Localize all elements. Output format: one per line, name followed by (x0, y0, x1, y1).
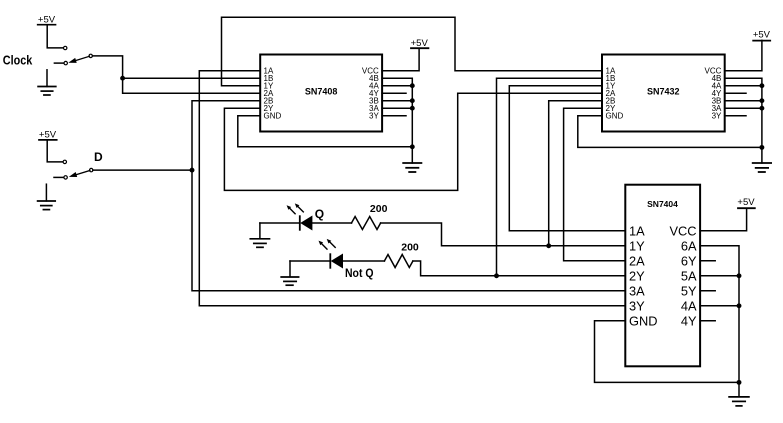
svg-text:1Y: 1Y (629, 238, 645, 253)
wire U2 4B tied to ground (725, 78, 762, 163)
svg-text:GND: GND (629, 313, 657, 328)
wire U2 4A (725, 85, 762, 87)
wire U2 1Y to U3 1A (509, 86, 625, 231)
wire Clock to U1 2A (92, 56, 260, 93)
svg-text:+5V: +5V (39, 130, 57, 141)
junction U1 GND rail (410, 144, 415, 149)
wire D to junction (93, 169, 192, 171)
wire U2 3Y stub (725, 115, 746, 117)
pin labels U1 right: VCC 4B 4A 4Y 3B 3A 3Y (362, 66, 380, 120)
junction D/2B (190, 168, 195, 173)
svg-text:Not Q: Not Q (345, 266, 374, 280)
svg-text:GND: GND (264, 111, 282, 120)
wire U3 5Y stub (700, 290, 715, 292)
wire U2 3A (725, 107, 762, 109)
ground (Clock switch) (38, 70, 56, 95)
wire U2 2Y to U3 2A (564, 108, 626, 261)
svg-text:200: 200 (401, 241, 419, 253)
op IC U2 SN7432 (602, 55, 725, 132)
ground (U1) (403, 163, 421, 172)
junction U3 4A (737, 303, 742, 308)
svg-text:4A: 4A (681, 298, 697, 313)
wire U1 2Y bottom loop to U2 2A (224, 93, 602, 190)
svg-text:5A: 5A (681, 268, 697, 283)
wire U1 3A (382, 107, 412, 109)
junction U3 5A (737, 273, 742, 278)
svg-text:3A: 3A (629, 283, 645, 298)
svg-text:Q: Q (315, 207, 324, 221)
svg-text:6A: 6A (681, 238, 697, 253)
wire U1 2B / D to U3 3A (192, 101, 625, 291)
power +5V (U1) (411, 38, 429, 49)
wire U3 5A (700, 275, 739, 277)
svg-text:D: D (94, 150, 103, 164)
svg-text:2Y: 2Y (629, 268, 645, 283)
resistor 200 (Not Q) (384, 255, 413, 268)
svg-text:5Y: 5Y (681, 283, 697, 298)
svg-text:+5V: +5V (753, 30, 771, 41)
wire LED Q to resistor (312, 222, 352, 224)
junction U1 3B (410, 98, 415, 103)
wire U1 GND rail (238, 116, 412, 147)
svg-text:SN7408: SN7408 (305, 87, 338, 97)
wire U2 3B (725, 100, 762, 102)
junction U2 4A (759, 83, 764, 88)
svg-text:4Y: 4Y (681, 313, 697, 328)
LED Not Q (319, 239, 343, 268)
op IC U3 SN7404 (625, 185, 700, 367)
junction U2 3B (759, 98, 764, 103)
svg-text:200: 200 (370, 203, 388, 215)
svg-text:2A: 2A (629, 253, 645, 268)
wire Q net to U3 1Y (381, 223, 626, 246)
svg-text:VCC: VCC (669, 223, 696, 238)
wire U2 VCC to +5V (725, 40, 762, 70)
ground (LED Q) (250, 223, 269, 247)
resistor 200 (Q) (352, 217, 381, 230)
junction Clock/1B (120, 76, 125, 81)
junction U1 3A (410, 106, 415, 111)
junction U2 GND rail (759, 145, 764, 150)
wire U1 VCC to +5V (382, 48, 419, 70)
wire U3 4A (700, 305, 739, 307)
wire U3 GND loop (595, 321, 740, 383)
svg-text:3Y: 3Y (629, 298, 645, 313)
ground (D switch) (38, 184, 56, 209)
svg-text:3Y: 3Y (712, 111, 722, 120)
wire U1 4Y stub (382, 92, 406, 94)
junction U3 GND (737, 380, 742, 385)
wire LED Not Q to resistor (343, 260, 385, 262)
wire U2 2B to Q net (549, 101, 602, 246)
svg-text:1A: 1A (629, 223, 645, 238)
wire ground to LED Q (260, 222, 300, 224)
svg-text:Clock: Clock (3, 54, 33, 68)
junction Q / U2 2B (546, 243, 551, 248)
wire U1 4B tied to ground (382, 78, 412, 163)
LED Q (287, 203, 312, 229)
op IC U1 SN7408 (260, 55, 382, 132)
wire U3 4Y stub (700, 320, 715, 322)
ground (U2) (753, 163, 771, 172)
svg-text:SN7404: SN7404 (647, 199, 678, 209)
wire U2 4Y stub (725, 92, 746, 94)
wire U3 VCC to +5V (700, 208, 747, 231)
wire Not Q net to U3 2Y (413, 261, 625, 276)
wire U1 3B (382, 100, 412, 102)
power +5V (D) (39, 130, 63, 162)
svg-text:SN7432: SN7432 (647, 87, 680, 97)
svg-text:3Y: 3Y (369, 111, 379, 120)
ground (LED Not Q) (281, 261, 298, 285)
pin labels U1 left: 1A 1B 1Y 2A 2B 2Y GND (264, 66, 282, 120)
wire U2 1B to NotQ net (497, 78, 603, 276)
wire ground to LED Not Q (290, 260, 330, 262)
junction U2 3A (759, 106, 764, 111)
wire U1 1Y feedback top to U2 1A (222, 17, 603, 86)
pin labels U3 right: VCC 6A 6Y 5A 5Y 4A 4Y (669, 223, 696, 328)
wire U3 6Y stub (700, 260, 715, 262)
svg-text:6Y: 6Y (681, 253, 697, 268)
pin labels U2 left: 1A 1B 1Y 2A 2B 2Y GND (606, 66, 624, 120)
wire Clock branch to U1 1B (123, 77, 261, 79)
pin labels U2 right: VCC 4B 4A 4Y 3B 3A 3Y (705, 66, 723, 120)
junction U1 4A (410, 83, 415, 88)
switch D (54, 160, 93, 179)
wire U1 4A (382, 85, 412, 87)
svg-text:+5V: +5V (737, 197, 755, 208)
power +5V (U3) (737, 197, 755, 208)
wire U2 GND rail (578, 116, 762, 148)
switch Clock (54, 46, 92, 64)
pin labels U3 left: 1A 1Y 2A 2Y 3A 3Y GND (629, 223, 657, 328)
power +5V (U2) (753, 30, 771, 41)
svg-text:+5V: +5V (411, 38, 429, 49)
wire U3 6A tied to ground (700, 246, 739, 397)
ground (U3) (729, 397, 749, 406)
power +5V (Clock) (38, 15, 64, 48)
wire U1 3Y stub (382, 115, 406, 117)
junction Not Q / U2 1B (494, 273, 499, 278)
svg-text:GND: GND (606, 111, 624, 120)
wire U1 1A to U3 3Y (199, 71, 625, 306)
